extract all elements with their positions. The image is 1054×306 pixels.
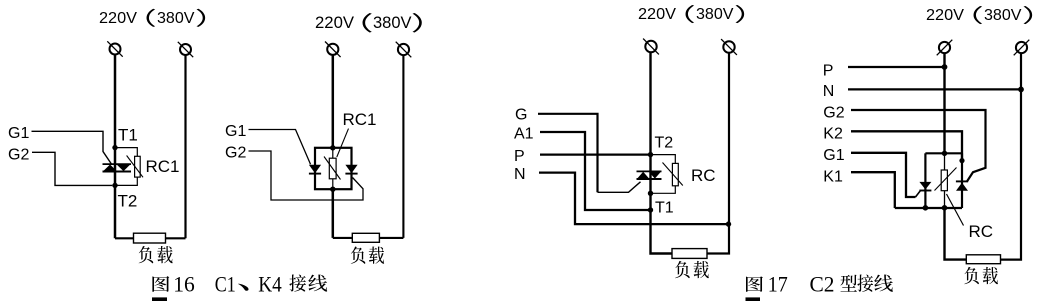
wire K2 circuit4 [851, 131, 962, 160]
svg-text:220V: 220V [926, 7, 965, 24]
wire circuit4 right vertical [1001, 53, 1022, 260]
node T2 circuit1 [112, 183, 117, 188]
leader line RC circuit4 [947, 194, 964, 226]
label circuit4 title 220V(380V) [926, 6, 1032, 24]
wire P circuit4 [848, 66, 945, 68]
svg-text:C2: C2 [810, 271, 835, 296]
module outline circuit2 [315, 148, 352, 189]
load resistor circuit2 load 负载 [352, 233, 379, 242]
terminal circuit1 left [107, 41, 122, 56]
svg-text:380V: 380V [157, 10, 195, 27]
wire circuit4 main bottom [945, 208, 967, 260]
svg-text:T2: T2 [118, 192, 138, 211]
wire circuit1 bottom [115, 237, 186, 239]
svg-text:G2: G2 [225, 144, 246, 161]
wire circuit4 network top bar [925, 152, 962, 154]
load resistor circuit3 load 负载 [672, 249, 707, 259]
thyristor right circuit2 [345, 165, 357, 174]
node bottom bar left circuit4 [923, 205, 929, 211]
node RC bottom circuit3 [648, 191, 653, 196]
label circuit1 title 220V(380V) [99, 9, 205, 27]
load resistor circuit4 load 负载 [966, 255, 1000, 264]
svg-text:T1: T1 [655, 200, 674, 217]
label circuit3 title 220V(380V) [638, 5, 744, 23]
label circuit2 title 220V(380V) [315, 13, 422, 33]
triac circuit3 [637, 171, 662, 179]
svg-text:RC1: RC1 [146, 157, 180, 176]
wire G1 gate circuit2 [249, 130, 311, 165]
node P junction circuit4 [942, 64, 948, 70]
wire N circuit3 [539, 173, 729, 225]
caption 图17 C2 型接线 [746, 271, 893, 296]
wire circuit4 right branch [961, 153, 963, 208]
RC snubber element RC1 circuit1 [127, 156, 143, 178]
wire circuit2 main top [332, 55, 335, 148]
thyristor right circuit4 [956, 181, 968, 190]
svg-text:K2: K2 [823, 126, 843, 143]
label circuit2 负载 [351, 246, 384, 263]
svg-text:RC: RC [969, 222, 994, 241]
wire circuit1 main vertical T1-T2 [114, 55, 117, 239]
svg-text:17: 17 [768, 271, 788, 296]
wire P circuit3 [540, 153, 651, 155]
label circuit4 负载 [964, 267, 998, 284]
wire circuit4 main vertical top [943, 53, 945, 153]
terminal circuit3 right [721, 39, 737, 55]
svg-text:A1: A1 [514, 126, 534, 143]
svg-text:T1: T1 [118, 125, 138, 144]
node N junction circuit4 [1018, 87, 1024, 93]
svg-text:380V: 380V [984, 7, 1022, 24]
svg-text:RC1: RC1 [343, 110, 377, 129]
wire RC1 branch circuit1 [115, 148, 137, 186]
wire circuit3 main vertical [651, 53, 673, 254]
cropped next-line text fragment left [152, 297, 167, 301]
node K2 junction circuit4 [959, 158, 964, 163]
svg-text:K4: K4 [258, 271, 282, 296]
label circuit3 负载 [675, 261, 709, 278]
wire circuit4 main middle thin [944, 153, 946, 208]
svg-text:220V: 220V [315, 13, 355, 32]
wire circuit1 right vertical [184, 55, 186, 238]
wire circuit4 left branch [924, 153, 926, 208]
cropped next-line text fragment right [746, 297, 761, 301]
svg-text:G1: G1 [225, 123, 246, 140]
wire N circuit4 [848, 88, 1021, 90]
label circuit1 负载 [139, 246, 173, 263]
wire circuit4 network bottom bar [895, 207, 962, 209]
wire G2 gate circuit2 [249, 151, 364, 200]
triac circuit1 [103, 164, 132, 171]
wire circuit2 right vertical [402, 55, 404, 238]
svg-text:P: P [514, 148, 525, 165]
leader line RC1 circuit2 [337, 129, 349, 157]
node bottom bar main circuit4 [942, 205, 948, 211]
svg-text:380V: 380V [696, 6, 734, 23]
svg-text:C1: C1 [215, 271, 236, 296]
terminal circuit3 left [643, 39, 659, 55]
terminal circuit2 left [325, 42, 341, 58]
svg-text:380V: 380V [373, 13, 412, 32]
wire RC branch circuit3 [651, 155, 676, 194]
caption 图16 C1、K4 接线 [152, 271, 327, 296]
svg-text:K1: K1 [823, 168, 843, 185]
RC snubber element RC circuit3 [663, 163, 683, 186]
node circuit2 top [330, 145, 335, 150]
node circuit2 bottom [330, 187, 335, 192]
wire G1 gate circuit1 [32, 131, 112, 164]
svg-text:G2: G2 [8, 147, 29, 164]
svg-text:T2: T2 [655, 135, 674, 152]
node T2 circuit3 [648, 152, 653, 157]
load resistor circuit1 load 负载 [134, 233, 166, 243]
wire G2 circuit4 [851, 110, 986, 181]
node T1 circuit1 [112, 145, 117, 150]
node N right circuit3 [726, 221, 731, 226]
svg-text:G1: G1 [823, 147, 844, 164]
RC snubber element RC1 inner circuit2 [324, 157, 341, 180]
svg-text:G2: G2 [823, 105, 844, 122]
svg-text:P: P [823, 62, 834, 79]
svg-text:220V: 220V [638, 6, 677, 23]
wire K1 circuit4 [851, 172, 895, 208]
wire G gate circuit3 [538, 114, 598, 193]
svg-text:N: N [514, 166, 526, 183]
node T1 circuit3 [648, 207, 653, 212]
wire circuit3 right vertical [707, 53, 729, 254]
thyristor left circuit4 [919, 182, 931, 191]
wire circuit2 bottom [333, 237, 404, 239]
svg-text:N: N [823, 83, 835, 100]
wire G2 circuit1 [32, 152, 112, 185]
svg-text:RC: RC [691, 166, 716, 185]
svg-text:16: 16 [173, 271, 195, 296]
terminal circuit1 right [178, 42, 193, 57]
terminal circuit2 right [396, 42, 412, 58]
svg-text:G: G [515, 107, 527, 124]
wire A1 circuit3 [540, 132, 651, 210]
terminal circuit4 left [937, 40, 953, 56]
svg-text:220V: 220V [99, 10, 138, 27]
wire circuit2 inner vertical [332, 148, 334, 189]
node top bar circuit4 [942, 151, 947, 156]
terminal circuit4 right [1014, 40, 1030, 56]
wire G1 circuit4 [851, 153, 916, 197]
svg-text:G1: G1 [8, 125, 29, 142]
wire circuit2 main bottom [332, 189, 335, 238]
thyristor left circuit2 [309, 165, 321, 174]
RC snubber element RC circuit4 [935, 168, 957, 191]
